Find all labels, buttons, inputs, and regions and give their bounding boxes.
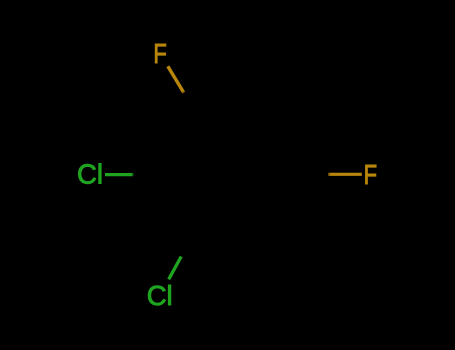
bond C3-Cl (bottom, green half-bond)	[169, 257, 182, 280]
bond C5-F (right, gold half-bond)	[328, 173, 362, 176]
bond C2-Cl (left, green half-bond)	[105, 173, 134, 176]
svg-text:F: F	[364, 160, 377, 191]
svg-text:F: F	[153, 39, 166, 70]
bond C1-F (top, gold half-bond)	[168, 66, 184, 93]
svg-text:Cl: Cl	[147, 280, 173, 311]
benzene ring (carbon skeleton, drawn black-on-black)	[150, 100, 323, 250]
svg-text:Cl: Cl	[77, 159, 103, 190]
